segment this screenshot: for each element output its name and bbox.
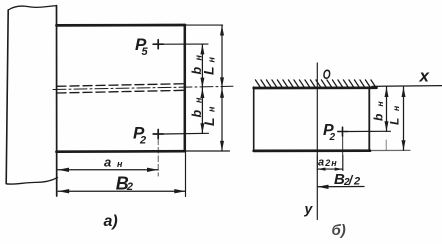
svg-text:н: н — [391, 106, 401, 111]
svg-text:O: O — [323, 66, 331, 82]
svg-text:2: 2 — [329, 132, 336, 143]
svg-text:н: н — [194, 55, 204, 61]
svg-text:2: 2 — [126, 181, 133, 193]
svg-text:L: L — [388, 118, 402, 125]
svg-text:2: 2 — [353, 176, 360, 188]
svg-text:x: x — [419, 67, 431, 86]
svg-text:н: н — [207, 57, 217, 63]
svg-text:L: L — [201, 66, 217, 75]
svg-text:н: н — [375, 101, 385, 106]
svg-text:а: а — [104, 154, 111, 169]
svg-text:2: 2 — [139, 135, 146, 147]
svg-text:b: b — [372, 114, 386, 121]
svg-text:н: н — [194, 97, 204, 103]
svg-text:2: 2 — [324, 158, 330, 168]
svg-text:5: 5 — [142, 46, 149, 58]
svg-text:н: н — [207, 106, 217, 112]
svg-text:L: L — [201, 117, 217, 126]
svg-text:н: н — [331, 158, 337, 168]
svg-text:а: а — [318, 157, 324, 169]
svg-text:б): б) — [332, 222, 346, 239]
svg-text:а): а) — [104, 213, 118, 230]
svg-text:н: н — [117, 159, 123, 169]
svg-text:у: у — [304, 201, 314, 217]
svg-text:b: b — [190, 110, 204, 118]
